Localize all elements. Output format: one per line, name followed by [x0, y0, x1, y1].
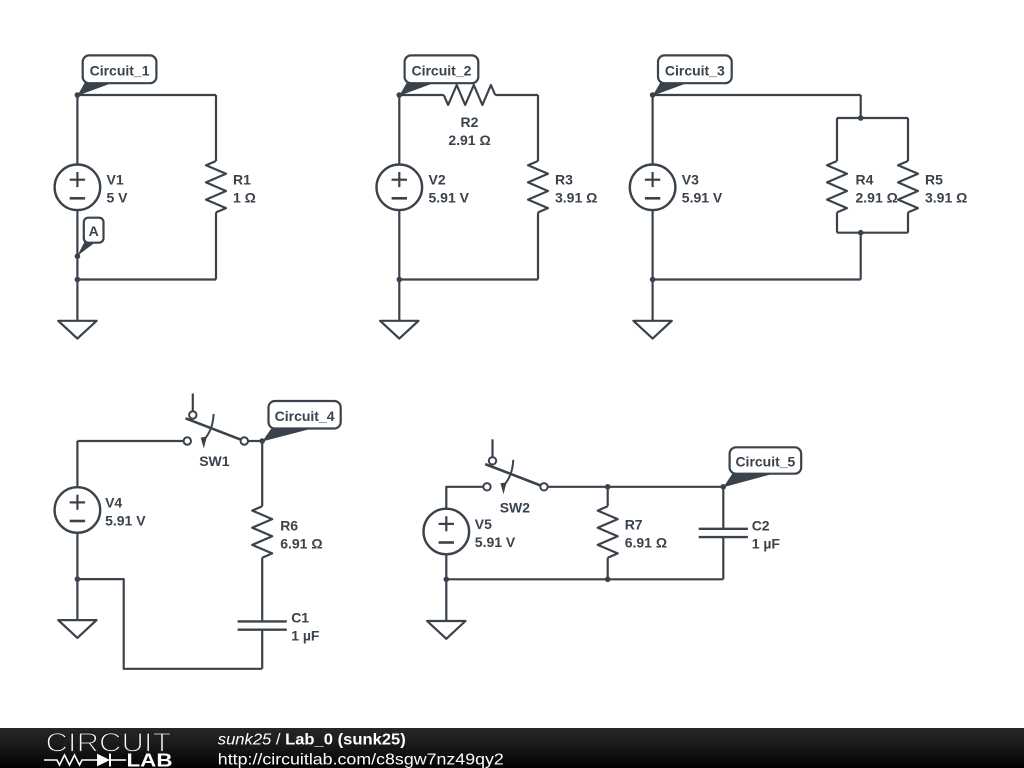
- wire circuit1 bottom: [77, 278, 216, 280]
- wire circuit3 top: [653, 94, 861, 96]
- switch SW2 pivot circle: [489, 457, 496, 464]
- wire node A to bottom junction: [76, 256, 78, 279]
- flag Circuit_5: [723, 473, 777, 488]
- wire circuit5 top-left riser: [446, 487, 483, 509]
- resistor R6: [252, 506, 272, 557]
- node circuit2 bottom junction dot: [397, 277, 403, 283]
- resistor R2: [444, 85, 495, 105]
- svg-text:R3: R3: [555, 172, 573, 188]
- switch SW1 blade: [186, 418, 241, 439]
- wire R5 bottom lead: [907, 212, 909, 232]
- wire circuit2 left (V2 top lead): [398, 95, 400, 165]
- node circuit1 bottom junction dot: [75, 277, 81, 283]
- switch SW1 pivot circle: [189, 411, 196, 418]
- wire circuit3 left (V3 top lead): [651, 95, 653, 165]
- svg-text:6.91 Ω: 6.91 Ω: [625, 535, 667, 551]
- wire circuit4 bottom return: [77, 579, 262, 669]
- voltage source V3: [630, 165, 676, 211]
- flag node A: [77, 242, 96, 256]
- wire parallel bottom connector: [837, 232, 908, 234]
- node A junction dot: [75, 253, 81, 259]
- wire circuit4 left (V4 top lead): [76, 441, 78, 487]
- wire parallel pair to bottom rail: [860, 233, 862, 280]
- svg-text:V4: V4: [105, 494, 122, 510]
- svg-text:V1: V1: [107, 172, 124, 188]
- node circuit5 bottom-left junction dot: [444, 577, 450, 583]
- svg-text:1 Ω: 1 Ω: [233, 190, 256, 206]
- svg-text:R4: R4: [856, 172, 874, 188]
- wire V4 bottom lead: [76, 533, 78, 579]
- svg-text:5.91 V: 5.91 V: [682, 190, 723, 206]
- flag Circuit_2: [399, 82, 436, 96]
- capacitor C1: [238, 620, 287, 622]
- node circuit4 ground junction dot: [75, 576, 81, 582]
- svg-text:R6: R6: [280, 518, 298, 534]
- wire R6 to C1: [261, 558, 263, 622]
- wire circuit3 top drop to parallel pair: [860, 95, 862, 118]
- node circuit3 bottom junction dot: [650, 277, 656, 283]
- svg-text:5.91 V: 5.91 V: [429, 190, 470, 206]
- ground circuit1: [58, 321, 96, 339]
- node circuit4 switch-output junction dot: [259, 438, 265, 444]
- voltage source V4: [55, 487, 101, 533]
- svg-text:LAB: LAB: [127, 749, 173, 768]
- wire R4 top lead: [836, 118, 838, 161]
- svg-text:5.91 V: 5.91 V: [475, 534, 516, 550]
- wire R7 node to C2 node: [608, 486, 724, 488]
- wire circuit1 left (V1 top lead): [76, 95, 78, 165]
- svg-text:5 V: 5 V: [107, 190, 129, 206]
- resistor R3: [528, 161, 548, 212]
- svg-text:Circuit_2: Circuit_2: [411, 62, 471, 78]
- wire circuit3 ground lead: [651, 280, 653, 321]
- wire switch SW1 to node: [248, 440, 262, 442]
- svg-text:sunk25 / Lab_0 (sunk25): sunk25 / Lab_0 (sunk25): [218, 732, 406, 749]
- svg-text:Circuit_4: Circuit_4: [275, 408, 335, 424]
- resistor R5: [898, 161, 918, 212]
- svg-text:Circuit_5: Circuit_5: [735, 454, 795, 470]
- wire switch SW2 to R7 node: [548, 486, 608, 488]
- flag Circuit_4: [262, 428, 316, 442]
- node circuit1 top-left junction dot: [75, 92, 81, 98]
- svg-text:R1: R1: [233, 172, 251, 188]
- switch SW2 actuator stem: [491, 439, 493, 457]
- wire C2 bottom lead: [722, 537, 724, 579]
- svg-text:6.91 Ω: 6.91 Ω: [280, 536, 322, 552]
- svg-text:http://circuitlab.com/c8sgw7nz: http://circuitlab.com/c8sgw7nz49qy2: [218, 751, 504, 768]
- node parallel bottom junction dot: [858, 230, 864, 236]
- resistor R7: [598, 506, 618, 557]
- voltage source V2: [377, 165, 423, 211]
- node parallel top junction dot: [858, 115, 864, 121]
- svg-text:A: A: [89, 223, 99, 239]
- wire circuit2 top-left to R2: [399, 94, 444, 96]
- svg-text:V3: V3: [682, 172, 699, 188]
- svg-text:C1: C1: [291, 610, 309, 626]
- svg-text:2.91 Ω: 2.91 Ω: [856, 190, 898, 206]
- svg-text:SW2: SW2: [500, 500, 531, 516]
- switch SW2 left terminal: [483, 483, 490, 490]
- capacitor C2: [699, 528, 748, 530]
- wire circuit1 top: [77, 94, 216, 96]
- wire circuit1 ground lead: [76, 280, 78, 321]
- svg-text:R7: R7: [625, 517, 643, 533]
- wire V5 bottom lead: [445, 554, 447, 579]
- wire circuit4 top (V4 to switch): [77, 440, 183, 442]
- switch SW2 right terminal: [540, 483, 547, 490]
- flag Circuit_1: [77, 82, 114, 96]
- svg-text:R2: R2: [461, 114, 479, 130]
- switch SW1 actuator stem: [192, 394, 194, 412]
- svg-text:C2: C2: [752, 517, 770, 533]
- svg-text:3.91 Ω: 3.91 Ω: [555, 190, 597, 206]
- wire node to R6 top lead: [261, 441, 263, 506]
- wire R2 to top-right corner: [495, 94, 538, 96]
- switch SW1 toggle arc arrow: [204, 414, 214, 440]
- flag Circuit_3: [653, 82, 690, 96]
- wire circuit4 ground lead: [76, 579, 78, 620]
- switch SW2 toggle arc arrow: [504, 460, 514, 486]
- switch SW1 right terminal: [241, 437, 248, 444]
- ground circuit2: [380, 321, 418, 339]
- node circuit5 R7 bottom junction dot: [605, 577, 611, 583]
- svg-text:SW1: SW1: [199, 453, 230, 469]
- switch SW2 blade: [485, 464, 540, 485]
- node circuit5 C2 top junction dot: [721, 484, 727, 490]
- svg-text:Circuit_3: Circuit_3: [665, 62, 725, 78]
- wire circuit2 right bottom (R3 bottom lead): [537, 212, 539, 279]
- footer bar: [0, 728, 1024, 768]
- node circuit3 top-left junction dot: [650, 92, 656, 98]
- resistor R1: [206, 161, 226, 212]
- svg-text:V5: V5: [475, 516, 492, 532]
- switch SW1 left terminal: [184, 437, 191, 444]
- resistor R4: [827, 161, 847, 212]
- voltage source V5: [424, 509, 470, 555]
- wire V2 bottom lead: [398, 210, 400, 279]
- wire circuit2 bottom: [399, 278, 538, 280]
- svg-text:5.91 V: 5.91 V: [105, 512, 146, 528]
- node circuit2 top-left junction dot: [397, 92, 403, 98]
- wire R5 top lead: [907, 118, 909, 161]
- node circuit5 R7 top junction dot: [605, 484, 611, 490]
- voltage source V1: [55, 165, 101, 211]
- wire circuit1 right top (R1 top lead): [215, 95, 217, 161]
- svg-text:R5: R5: [925, 172, 943, 188]
- svg-text:V2: V2: [429, 172, 446, 188]
- wire R4 bottom lead: [836, 212, 838, 232]
- wire circuit5 bottom: [446, 578, 723, 580]
- svg-text:3.91 Ω: 3.91 Ω: [925, 190, 967, 206]
- wire R7 top lead: [607, 487, 609, 507]
- wire C2 top lead: [722, 487, 724, 529]
- wire circuit2 right top (R3 top lead): [537, 95, 539, 161]
- wire V3 bottom lead: [651, 210, 653, 279]
- ground circuit5: [427, 621, 465, 639]
- wire V1 bottom lead to node A: [76, 210, 78, 256]
- wire circuit5 ground lead: [445, 579, 447, 621]
- svg-text:2.91 Ω: 2.91 Ω: [448, 132, 490, 148]
- wire R7 bottom lead: [607, 558, 609, 580]
- svg-text:Circuit_1: Circuit_1: [90, 62, 150, 78]
- ground circuit3: [633, 321, 671, 339]
- wire parallel top connector: [837, 117, 908, 119]
- svg-text:1 µF: 1 µF: [291, 628, 320, 644]
- wire circuit1 right bottom (R1 bottom lead): [215, 212, 217, 279]
- wire circuit3 bottom: [653, 278, 861, 280]
- wire C1 bottom lead: [261, 630, 263, 669]
- ground circuit4: [58, 620, 96, 638]
- wire circuit2 ground lead: [398, 280, 400, 321]
- svg-text:1 µF: 1 µF: [752, 535, 781, 551]
- logo resistor-diode underline: [44, 755, 126, 765]
